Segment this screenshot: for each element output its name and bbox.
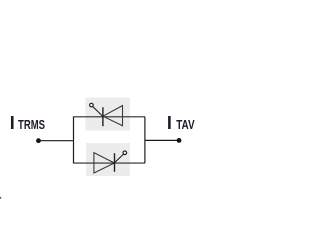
wire: top branch horizontal	[73, 116, 145, 118]
node: left terminal dot	[36, 138, 41, 143]
thyristor Th2 (bottom, pointing right): triangle	[94, 153, 115, 173]
wire: right junction vertical	[144, 117, 146, 163]
stray mark bottom-left corner	[0, 197, 1, 199]
svg-text:TAV: TAV	[176, 117, 195, 132]
thyristor Th2 gate terminal circle	[123, 151, 127, 155]
thyristor Th1 (top, pointing left): triangle	[103, 106, 123, 126]
thyristor Th1 gate terminal circle	[90, 103, 94, 107]
svg-text:I: I	[10, 113, 15, 133]
highlight box behind thyristor Th2	[86, 143, 130, 176]
highlight box behind thyristor Th1	[86, 98, 131, 131]
thyristor Th2 gate lead	[114, 154, 123, 163]
wire: left junction vertical	[73, 117, 75, 163]
thyristor Th1 cathode bar	[102, 107, 104, 126]
wire: bottom branch horizontal	[73, 162, 145, 164]
thyristor Th2 cathode bar	[114, 153, 116, 172]
svg-text:TRMS: TRMS	[18, 117, 45, 132]
svg-text:I: I	[167, 113, 172, 133]
node: right terminal dot	[177, 138, 182, 143]
thyristor Th1 gate lead	[92, 106, 102, 116]
wire: left terminal to left junction	[39, 140, 75, 142]
wire: right junction to right terminal	[145, 139, 179, 141]
